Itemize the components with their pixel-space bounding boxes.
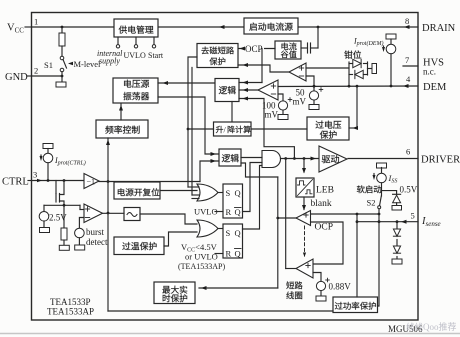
wire 0.88V to sc comp [313, 273, 321, 282]
wire freq to vco [120, 104, 122, 120]
stub UVLO [135, 37, 137, 45]
dashed wire OCP to SC comp [304, 226, 306, 256]
svg-text:TEA1533AP: TEA1533AP [47, 307, 94, 317]
block: current valley (dian liu gu zhi) [275, 41, 301, 59]
stub internal supply [117, 37, 119, 45]
amp -1 [84, 174, 99, 189]
wire vco to logic2 [158, 97, 219, 154]
wire cap to drain rail [317, 27, 319, 48]
svg-text:M-level: M-level [74, 59, 102, 69]
source 2.5V [43, 205, 45, 211]
svg-text:S1: S1 [44, 60, 53, 70]
wire -1 out [99, 181, 200, 183]
svg-text:UVLO: UVLO [124, 51, 146, 60]
oscillator sawtooth box [124, 208, 140, 221]
page rule artifact [0, 333, 460, 335]
wire OCP minus input [311, 222, 344, 264]
wire logic1 lower in [239, 99, 294, 159]
svg-text:LEB: LEB [316, 186, 334, 196]
svg-text:(TEA1533AP): (TEA1533AP) [178, 262, 225, 271]
wire logic2 to maxprot staircase [241, 163, 278, 177]
ground bar below S1 [61, 76, 63, 82]
svg-text:GND: GND [5, 72, 28, 83]
svg-text:7: 7 [405, 55, 409, 65]
capacitor C1 [301, 47, 308, 49]
source 100mV [278, 94, 283, 101]
wire pin5 node to opp right [378, 222, 380, 306]
wire logic1 to updown calc [231, 102, 233, 122]
svg-text:Q: Q [235, 188, 241, 198]
block: startup current source (qi dong dian liu yuan) [244, 18, 298, 34]
wire LEB to OCP comp [303, 197, 305, 210]
block: logic 1 (luo ji) [215, 79, 239, 102]
resistor R1 [61, 27, 63, 33]
AND gate U3 [262, 151, 281, 168]
wire VCC rail [32, 26, 115, 28]
current source Iprot(CTRL) [43, 144, 53, 149]
block: power-on reset (dian yuan kai fu wei) [114, 182, 160, 199]
diode chain D4 [393, 246, 400, 253]
svg-text:blank: blank [311, 199, 332, 209]
pin 8 DRAIN [298, 26, 418, 28]
M-level arrow [68, 62, 73, 66]
wire latch1 Qbar to AND [243, 163, 263, 212]
svg-text:or UVLO: or UVLO [185, 252, 218, 262]
wire OCP to demag block [238, 48, 275, 50]
soft start label (ruan qi dong) [357, 185, 365, 193]
svg-text:Q: Q [235, 249, 241, 259]
svg-text:burst: burst [86, 227, 104, 237]
wire valley to logic1 [261, 49, 263, 83]
diode clamp D1 [348, 62, 350, 86]
source 50mV [313, 86, 315, 91]
svg-text:S2: S2 [367, 198, 376, 208]
current source Iss [377, 163, 387, 168]
svg-text:5: 5 [411, 211, 415, 221]
block: demag short-circuit protection (qu ci duan lu bao hu) [197, 44, 238, 68]
wire comp2 out to logic1 [239, 89, 258, 91]
wire 2.5V row [44, 204, 80, 206]
svg-text:S: S [226, 188, 231, 198]
block: over power protection (guo gong lv bao hu) [333, 297, 378, 313]
svg-text:mV: mV [293, 97, 307, 107]
stub Start [153, 37, 155, 45]
wire comp1 out to demag [238, 65, 289, 72]
source 0.88V [316, 281, 325, 290]
wire driver to pin6 [348, 158, 418, 160]
svg-text:3: 3 [33, 170, 37, 180]
svg-text:supply: supply [99, 57, 120, 66]
svg-text:8: 8 [405, 16, 409, 26]
wire AND output to driver [281, 158, 321, 160]
svg-text:DEM: DEM [423, 82, 447, 93]
wire GND stub [32, 75, 63, 77]
svg-text:mV: mV [265, 110, 279, 120]
svg-text:Q: Q [235, 207, 241, 217]
comparator burst [84, 204, 103, 223]
wire updown left tap [188, 128, 214, 130]
resistor R2 [63, 205, 65, 228]
block: logic 2 (luo ji) [219, 149, 241, 166]
wire pin5 node to opp top [356, 222, 358, 297]
op-amp U1 demag comparator [289, 63, 306, 81]
block: up/down calculation (sheng jiang ji suan) [214, 122, 252, 136]
switch S1 [60, 56, 64, 60]
diode clamp D2 [349, 74, 353, 76]
svg-text:UVLO: UVLO [194, 207, 218, 217]
block: maximum on-time protection (zui da shi shi bao hu) [154, 282, 195, 304]
svg-text:2: 2 [34, 66, 38, 76]
wire Isense pin5 [357, 221, 418, 223]
block: frequency control (pin lv kong zhi) [96, 120, 148, 138]
wire logic1 to vco [158, 82, 215, 84]
IC block border [32, 13, 419, 321]
wire saw to OR2 [140, 214, 197, 224]
svg-text:R: R [226, 207, 232, 217]
wire ctrl amp to logic2 [200, 161, 219, 182]
svg-text:R: R [226, 249, 232, 259]
svg-text:TEA1533P: TEA1533P [50, 297, 91, 307]
wire OCP out [278, 217, 296, 219]
wire updown to OVP [251, 128, 307, 130]
svg-text:DRIVER: DRIVER [421, 155, 460, 166]
svg-text:0.5V: 0.5V [400, 185, 418, 195]
driver amp (qu dong) [319, 146, 347, 172]
wire logic2 to AND [241, 157, 262, 159]
OR gate U4 [197, 184, 218, 201]
wire DEM to OVP [356, 86, 358, 128]
wire por to OR1 [160, 190, 197, 192]
clamp rail bar [368, 68, 373, 70]
svg-text:Start: Start [148, 51, 164, 60]
wire U1 plus to clamp [306, 67, 349, 69]
block: LEB [296, 178, 314, 197]
latch U6 SR [223, 184, 243, 218]
source burst detect [79, 218, 84, 229]
OR gate U5 [197, 220, 218, 237]
diode chain D3 [396, 222, 398, 229]
op-amp U8 OCP [296, 211, 311, 226]
svg-text:1: 1 [34, 17, 38, 27]
wire U1 minus to 50mV [306, 76, 314, 86]
wire DEM line [278, 85, 418, 88]
wire driver line to LEB [303, 159, 305, 173]
wire driver line feedback to logic1 [293, 157, 296, 160]
wire temp to OR2 [164, 232, 197, 246]
clamp label (qian wei) [344, 51, 352, 59]
block: voltage source oscillator (dian ya yuan zhen dang qi) [113, 78, 158, 103]
svg-text:S: S [226, 228, 231, 238]
wire burst out [103, 212, 125, 214]
svg-text:6: 6 [406, 147, 410, 157]
block: power management (gong dian guan li) [114, 19, 158, 37]
svg-text:0.88V: 0.88V [329, 282, 352, 292]
pin 7 HVS [403, 65, 418, 67]
svg-text:DRAIN: DRAIN [422, 23, 456, 34]
svg-text:n.c.: n.c. [423, 67, 436, 77]
wire CTRL line [32, 180, 85, 182]
block: overtemperature protection (guo wen bao hu) [114, 237, 164, 255]
wire R2 input [215, 253, 223, 255]
wire OR1 out to latch S [218, 192, 223, 194]
svg-text:−1: −1 [87, 178, 96, 187]
wire OR2 out to latch2 S [218, 228, 223, 230]
latch U7 SR [223, 224, 243, 258]
wire demag outputs down-left [188, 57, 197, 187]
wire OCP plus input [311, 214, 358, 222]
wires OR1 inputs [188, 186, 199, 188]
op-amp U9 short-circuit winding [296, 259, 313, 278]
block: overvoltage protection (guo dian ya bao hu) [307, 117, 349, 140]
svg-text:detect: detect [86, 237, 108, 247]
svg-text:线线Qoo推荐: 线线Qoo推荐 [406, 321, 457, 332]
wire bottom long [108, 310, 333, 312]
wire latch2 Q to AND [243, 166, 263, 230]
svg-text:OCP: OCP [315, 223, 333, 233]
wire input to freq control [107, 138, 109, 311]
wire ocp-out down to maxprot line [277, 177, 279, 288]
transistor Q1 [55, 181, 57, 194]
op-amp U2 [258, 80, 278, 100]
svg-text:Q: Q [235, 228, 241, 238]
wire sc comp out [286, 268, 296, 270]
svg-text:OCP: OCP [245, 44, 263, 54]
svg-text:CTRL: CTRL [2, 177, 29, 188]
